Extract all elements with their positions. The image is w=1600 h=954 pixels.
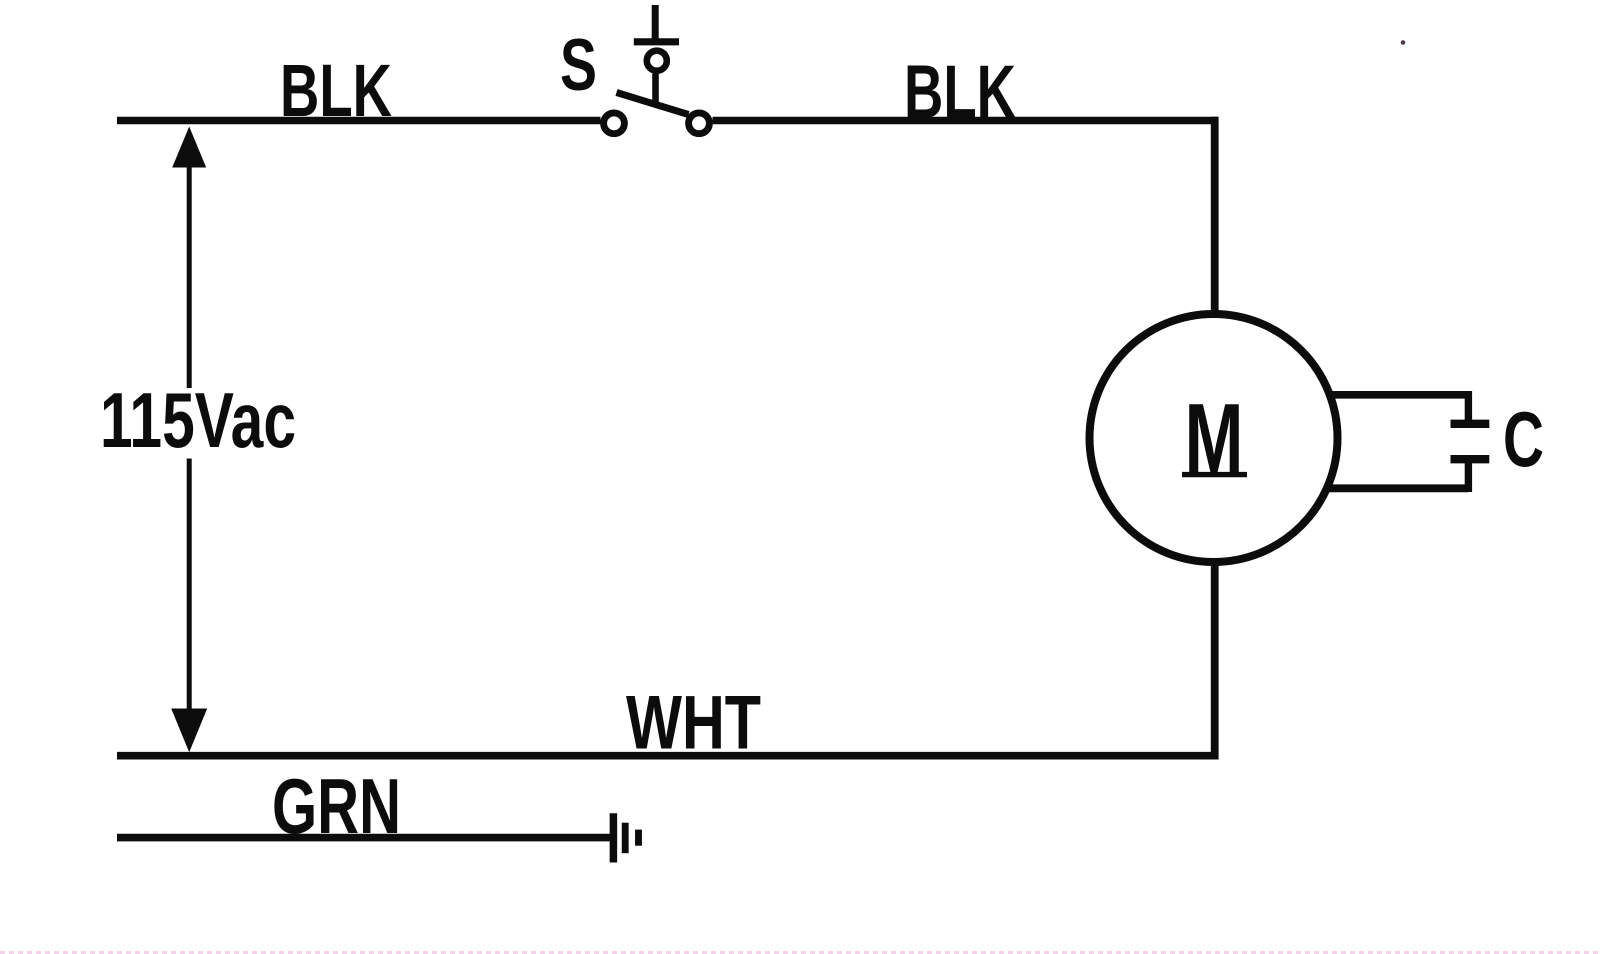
wire corner down to motor top	[1211, 117, 1219, 313]
wire bottom WHT segment	[117, 752, 1219, 760]
capacitor C bottom plate	[1451, 455, 1490, 463]
ground symbol bar 3	[635, 830, 642, 846]
svg-text:S: S	[560, 25, 597, 106]
label M underline	[1182, 472, 1247, 477]
switch S plunger link	[652, 74, 659, 106]
switch S pushbutton actuator stem	[652, 5, 659, 41]
bottom pink dotted rule	[0, 951, 1600, 954]
speck artifact	[1401, 40, 1406, 45]
motor M circle	[1090, 314, 1338, 562]
switch S pushbutton actuator bar	[634, 38, 679, 45]
svg-text:BLK: BLK	[904, 50, 1016, 134]
switch S right terminal	[689, 113, 710, 134]
wire GRN segment	[117, 834, 611, 842]
wire capacitor top stub down	[1465, 391, 1472, 424]
svg-text:115Vac: 115Vac	[100, 376, 296, 464]
capacitor C top plate	[1451, 420, 1490, 428]
wire capacitor bottom stub up	[1465, 459, 1472, 492]
115Vac dimension arrow shaft lower	[187, 459, 192, 731]
svg-text:BLK: BLK	[280, 49, 392, 132]
svg-text:C: C	[1503, 395, 1544, 483]
wire motor bottom to WHT	[1211, 563, 1219, 760]
wire top-right BLK segment	[713, 117, 1219, 124]
svg-text:GRN: GRN	[272, 762, 401, 850]
wire top-left BLK segment	[117, 117, 601, 124]
ground symbol bar 1	[610, 813, 618, 862]
115Vac arrow head up	[172, 127, 206, 168]
switch S upper contact circle	[647, 51, 667, 71]
svg-text:WHT: WHT	[626, 681, 761, 766]
wire motor to capacitor top	[1329, 391, 1468, 399]
wire motor to capacitor bottom	[1328, 484, 1468, 492]
115Vac dimension arrow shaft upper	[187, 150, 192, 388]
switch S left terminal	[604, 113, 625, 134]
115Vac arrow head down	[171, 709, 207, 753]
switch S arm	[617, 93, 689, 115]
ground symbol bar 2	[622, 823, 629, 854]
